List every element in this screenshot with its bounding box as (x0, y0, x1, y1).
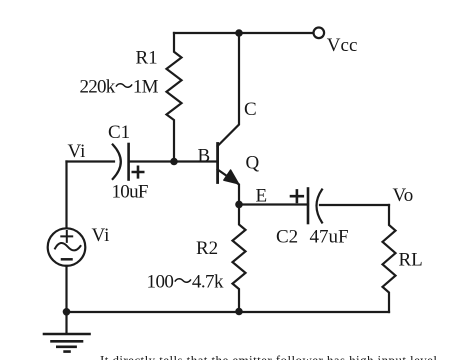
svg-text:B: B (198, 146, 211, 167)
svg-text:Vcc: Vcc (327, 35, 358, 56)
capacitor C2 straight plate (307, 189, 310, 224)
node ground junction dot (63, 308, 71, 316)
svg-text:R2: R2 (196, 238, 218, 259)
wire: input down to source (65, 162, 67, 229)
wire: Vcc top rail (174, 32, 313, 34)
svg-text:10uF: 10uF (112, 182, 149, 203)
capacitor C1 curved plate (113, 145, 121, 180)
capacitor C1 straight plate (127, 144, 130, 180)
node R2 bottom junction dot (235, 308, 243, 316)
svg-text:It directly tells that the emi: It directly tells that the emitter follo… (100, 353, 437, 360)
wire: input left horizontal (67, 160, 115, 162)
svg-text:47uF: 47uF (310, 227, 349, 248)
svg-text:C1: C1 (108, 122, 130, 143)
svg-text:Q: Q (246, 153, 260, 174)
node B junction dot (170, 158, 178, 166)
transistor Q collector lead (218, 33, 239, 146)
svg-text:220k～1M: 220k～1M (80, 77, 159, 98)
svg-text:Vo: Vo (393, 185, 414, 206)
polarity + of C1 (133, 167, 143, 178)
transistor Q base bar (216, 144, 219, 183)
polarity + of C2 (291, 190, 303, 202)
resistor RL (383, 205, 396, 312)
wire: C2 to RL (Vo node) (320, 204, 389, 206)
svg-text:Vi: Vi (92, 225, 110, 246)
svg-text:100～4.7k: 100～4.7k (147, 272, 225, 293)
svg-text:RL: RL (399, 249, 423, 270)
svg-text:R1: R1 (136, 47, 158, 68)
svg-text:Vi: Vi (68, 141, 86, 162)
ground (44, 334, 90, 352)
svg-text:C: C (244, 99, 257, 120)
transistor Q emitter arrow (224, 170, 239, 184)
wire: source to ground rail (65, 266, 67, 334)
wire: C1 to base (129, 160, 217, 162)
source Vi sine wave (55, 243, 81, 250)
node E junction dot (235, 201, 243, 209)
source Vi minus sign (62, 258, 72, 261)
node collector-rail junction dot (235, 29, 243, 37)
capacitor C2 curved plate (317, 190, 323, 223)
svg-text:C2: C2 (276, 227, 298, 248)
source Vi circle (48, 228, 86, 266)
svg-text:E: E (256, 185, 268, 206)
resistor R1 (167, 33, 182, 162)
source Vi plus sign (61, 231, 72, 242)
transistor Q emitter lead (218, 170, 239, 205)
wire: bottom rail (67, 311, 390, 313)
terminal Vcc (314, 28, 325, 39)
wire: emitter to C2 (239, 203, 308, 205)
resistor R2 (233, 204, 246, 311)
